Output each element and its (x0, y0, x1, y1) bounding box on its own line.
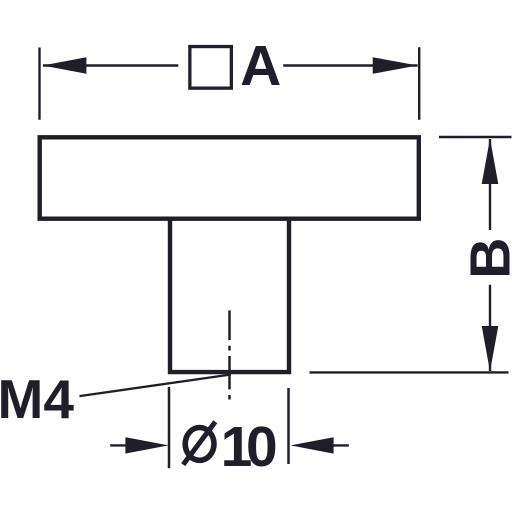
svg-text:0: 0 (246, 415, 278, 479)
svg-text:M4: M4 (0, 368, 74, 430)
svg-text:A: A (240, 34, 281, 98)
svg-text:B: B (458, 238, 512, 279)
